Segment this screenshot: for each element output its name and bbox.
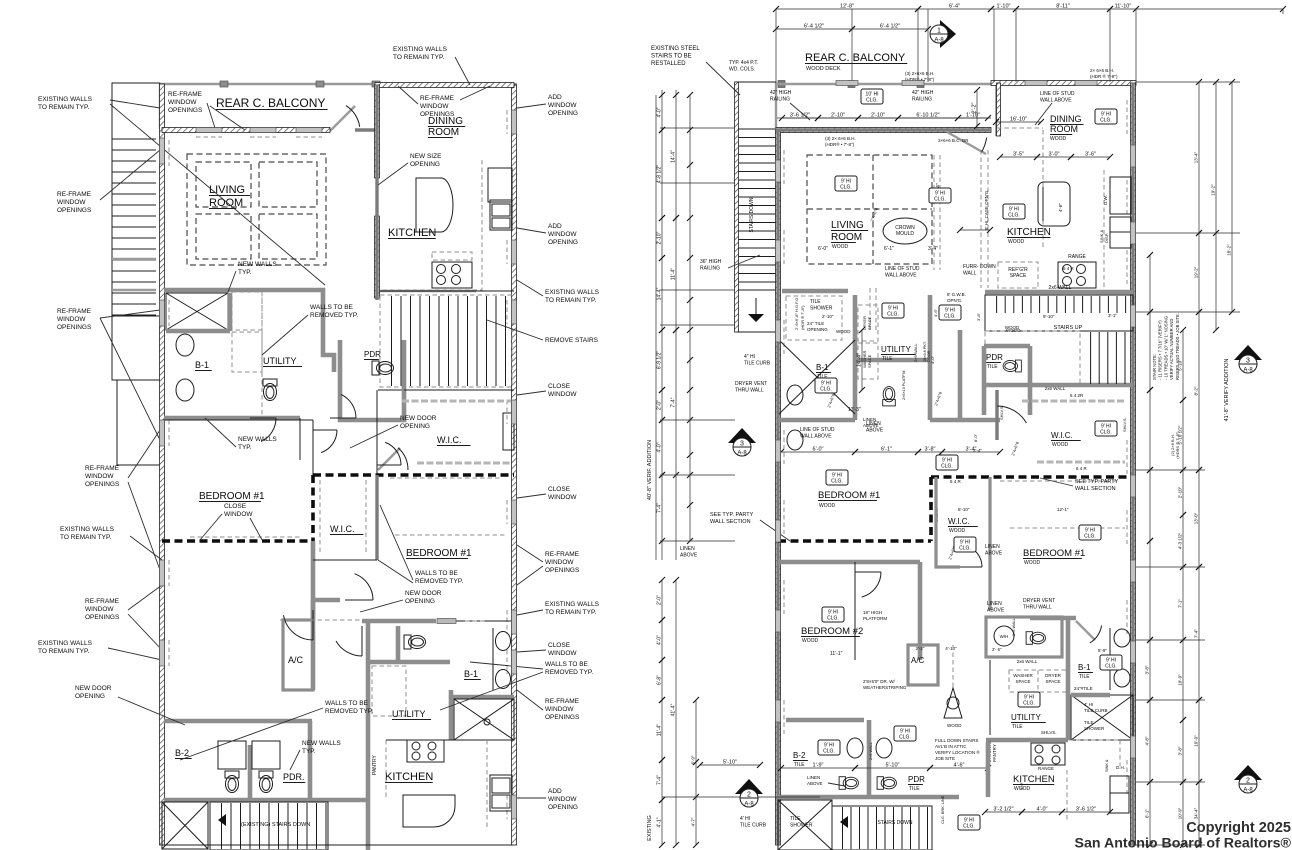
svg-text:KITCHEN: KITCHEN <box>1007 227 1051 238</box>
svg-text:3'-2 1/2": 3'-2 1/2" <box>993 807 1013 813</box>
svg-text:A-8: A-8 <box>1243 368 1253 374</box>
right plan: middle walls utility/pdr <box>782 289 848 294</box>
svg-text:WALL ABOVE: WALL ABOVE <box>1040 98 1072 104</box>
svg-text:36" HIGH: 36" HIGH <box>700 259 722 265</box>
svg-text:ADD: ADD <box>548 94 562 101</box>
svg-text:3'-0": 3'-0" <box>1019 781 1024 790</box>
svg-text:WOOD: WOOD <box>1052 442 1068 448</box>
left plan: right wall <box>512 85 515 845</box>
svg-text:A-8: A-8 <box>737 451 747 457</box>
svg-text:12'-1": 12'-1" <box>1057 507 1069 512</box>
svg-text:(EXISTING) STAIRS DOWN: (EXISTING) STAIRS DOWN <box>241 822 310 828</box>
left plan: B-2 fixtures <box>225 771 239 793</box>
svg-text:2'8×5'0" DR. W/: 2'8×5'0" DR. W/ <box>863 679 895 684</box>
left plan: bottom-left X landing <box>162 802 208 849</box>
svg-text:WEATHERSTRIPING: WEATHERSTRIPING <box>863 685 907 690</box>
svg-text:DINING: DINING <box>1050 114 1082 124</box>
svg-text:34'-4": 34'-4" <box>1194 807 1199 819</box>
svg-text:2'-10": 2'-10" <box>657 231 663 244</box>
svg-text:OPENINGS: OPENINGS <box>85 481 120 488</box>
left plan: counter edge gray <box>380 290 476 292</box>
svg-text:CLG.: CLG. <box>1100 430 1112 436</box>
svg-text:5'-10": 5'-10" <box>1178 359 1183 371</box>
right plan: utility appliances stacked <box>858 305 878 341</box>
right plan: bed1 dashed headers <box>1000 480 1120 482</box>
svg-text:CLG. BRK. LINE: CLG. BRK. LINE <box>941 795 945 824</box>
svg-text:CLOSE: CLOSE <box>548 383 571 390</box>
right plan: bottom stairs <box>832 806 932 850</box>
svg-text:NEW WALLS: NEW WALLS <box>238 436 277 443</box>
svg-text:TILE: TILE <box>790 816 801 822</box>
marker 3/A-8 right <box>1234 345 1262 360</box>
svg-text:WINDOW: WINDOW <box>57 199 86 206</box>
ceiling height boxes right plan <box>835 176 857 191</box>
svg-text:ROOM: ROOM <box>428 127 459 138</box>
svg-text:6'-4 1/2": 6'-4 1/2" <box>804 24 824 30</box>
svg-text:RE-FRAME: RE-FRAME <box>545 551 580 558</box>
svg-text:8'-0": 8'-0" <box>973 433 978 442</box>
svg-text:NEW SIZE: NEW SIZE <box>410 153 442 160</box>
window opening overlays left plan <box>160 138 165 164</box>
svg-text:6 4 R: 6 4 R <box>950 479 962 484</box>
left plan: W.I.C. area <box>404 389 514 391</box>
svg-text:3×6×6 B.C. DR: 3×6×6 B.C. DR <box>938 138 969 143</box>
svg-text:NEW WALLS: NEW WALLS <box>238 261 277 268</box>
svg-text:WOOD: WOOD <box>947 723 962 728</box>
svg-text:4'-10": 4'-10" <box>945 646 957 651</box>
svg-text:W.I.C.: W.I.C. <box>330 524 355 534</box>
svg-text:DISP.: DISP. <box>1104 233 1109 243</box>
svg-text:TILE CURB: TILE CURB <box>744 361 771 367</box>
svg-text:EXISTING WALLS: EXISTING WALLS <box>545 601 600 608</box>
svg-text:7'-4": 7'-4" <box>657 775 663 785</box>
svg-text:CLG.: CLG. <box>959 546 971 552</box>
svg-text:NEW WALLS: NEW WALLS <box>302 740 341 747</box>
right plan: lower walls <box>786 718 864 723</box>
svg-text:MOULD: MOULD <box>896 231 914 237</box>
svg-text:STAIRS DOWN: STAIRS DOWN <box>878 820 913 826</box>
svg-text:BEDROOM #1: BEDROOM #1 <box>406 548 472 559</box>
svg-text:2'-10": 2'-10" <box>1178 486 1183 498</box>
svg-text:EXISTING WALLS: EXISTING WALLS <box>393 46 448 53</box>
right plan: 2x6 wall strip <box>985 290 1133 295</box>
svg-text:LINE OF STUD: LINE OF STUD <box>1040 91 1075 97</box>
svg-text:2×6×10 PLATF'M: 2×6×10 PLATF'M <box>902 371 906 400</box>
svg-text:TO REMAIN TYP.: TO REMAIN TYP. <box>38 104 89 111</box>
right plan: dining top wall <box>991 81 1136 84</box>
svg-text:WALL SECTION: WALL SECTION <box>1075 486 1116 492</box>
svg-text:LINE OF STUD: LINE OF STUD <box>800 427 835 433</box>
svg-text:2'-2": 2'-2" <box>972 102 978 113</box>
svg-text:W.I.C.: W.I.C. <box>1051 431 1073 440</box>
svg-text:3'-6 1/2": 3'-6 1/2" <box>790 113 810 119</box>
svg-text:D.H.: D.H. <box>1116 765 1125 770</box>
svg-text:CLG.: CLG. <box>866 98 878 104</box>
svg-text:13'-4": 13'-4" <box>1194 151 1199 163</box>
svg-text:TILE: TILE <box>987 364 998 370</box>
svg-text:SHOWER: SHOWER <box>1084 726 1105 731</box>
svg-text:6'-0": 6'-0" <box>818 246 828 252</box>
left plan: bottom stairs <box>210 802 328 850</box>
left plan: stair landing bars <box>112 258 156 260</box>
svg-text:WALL ABOVE: WALL ABOVE <box>800 434 832 440</box>
svg-text:WINDOW: WINDOW <box>85 606 114 613</box>
svg-text:4'-0": 4'-0" <box>1037 807 1048 813</box>
svg-text:PDR: PDR <box>986 353 1003 362</box>
svg-text:WALLS TO BE: WALLS TO BE <box>310 304 354 311</box>
dims inside balcony right <box>782 117 818 119</box>
svg-text:RAILING: RAILING <box>700 266 720 272</box>
right plan: washer dryer dashed <box>1009 670 1068 692</box>
svg-text:SHLV.S.: SHLV.S. <box>999 405 1004 420</box>
svg-text:TYP.: TYP. <box>302 748 316 755</box>
annotation stair note right rotated <box>1152 313 1180 380</box>
svg-text:4'-0": 4'-0" <box>657 442 663 452</box>
svg-text:5'-10": 5'-10" <box>723 760 737 766</box>
left plan: kitchen island <box>416 178 453 232</box>
svg-text:- 10 TREADS • 10" W/ 1" NOSING: - 10 TREADS • 10" W/ 1" NOSING <box>1163 316 1168 380</box>
svg-text:ROOM: ROOM <box>1050 124 1078 134</box>
right plan: W/H and utility walls <box>986 617 1062 657</box>
svg-text:RESTALLED: RESTALLED <box>651 61 686 67</box>
dims dining row2 <box>1037 156 1071 158</box>
svg-text:CLG.: CLG. <box>899 735 911 741</box>
svg-text:WOOD: WOOD <box>836 329 851 334</box>
dims kitchen right row <box>996 121 1041 123</box>
left plan: utility dashed appliances <box>232 292 262 330</box>
left plan: window hatches top wall <box>196 128 222 133</box>
left plan: B-1 fixtures <box>176 334 194 356</box>
svg-text:EXISTING WALLS: EXISTING WALLS <box>38 96 93 103</box>
svg-text:42" HIGH: 42" HIGH <box>912 90 934 96</box>
svg-text:CLG.: CLG. <box>934 197 946 203</box>
left plan: party wall dashed <box>313 473 514 477</box>
left plan: shower B-1 <box>166 293 228 330</box>
svg-text:B-2: B-2 <box>793 751 806 760</box>
svg-text:BEDROOM #2: BEDROOM #2 <box>801 626 863 637</box>
svg-text:VERIFY LOCATION ®: VERIFY LOCATION ® <box>935 749 980 755</box>
svg-text:TO REMAIN TYP.: TO REMAIN TYP. <box>393 54 444 61</box>
svg-text:WALLS TO BE: WALLS TO BE <box>415 570 459 577</box>
svg-text:NEW DOOR: NEW DOOR <box>400 415 437 422</box>
right plan: left wall <box>776 130 779 845</box>
right plan: window header dashes walls <box>783 150 785 184</box>
svg-text:ADD: ADD <box>548 223 562 230</box>
left plan: PDR walls <box>340 340 404 420</box>
svg-text:OPENINGS: OPENINGS <box>57 207 92 214</box>
right dim chains of right plan <box>1149 255 1151 845</box>
svg-text:LIVING: LIVING <box>209 184 245 196</box>
svg-text:WOOD: WOOD <box>819 503 835 509</box>
svg-text:4'-6": 4'-6" <box>1058 203 1063 212</box>
svg-text:3'-8": 3'-8" <box>976 312 981 321</box>
svg-text:REAR C. BALCONY: REAR C. BALCONY <box>805 52 906 64</box>
svg-text:ABOVE: ABOVE <box>680 553 698 559</box>
svg-text:OPENINGS: OPENINGS <box>85 614 120 621</box>
svg-text:SPACE: SPACE <box>1016 679 1031 684</box>
svg-text:REMOVED TYP.: REMOVED TYP. <box>325 708 373 715</box>
svg-text:OPENING: OPENING <box>75 693 105 700</box>
svg-text:ADD: ADD <box>548 788 562 795</box>
svg-text:LINEN: LINEN <box>680 546 695 552</box>
svg-text:LINEN: LINEN <box>807 775 820 780</box>
svg-text:SEE TYP. PARTY: SEE TYP. PARTY <box>1075 479 1119 485</box>
svg-text:RANGE: RANGE <box>1068 254 1086 260</box>
svg-text:PANTRY: PANTRY <box>372 755 378 775</box>
svg-text:2'-0": 2'-0" <box>657 400 663 410</box>
svg-text:RE-FRAME: RE-FRAME <box>57 308 92 315</box>
svg-text:41'-4": 41'-4" <box>671 703 677 716</box>
right plan: outer wall hatching <box>776 128 991 133</box>
svg-text:11'-10": 11'-10" <box>1115 4 1132 10</box>
right plan: wic closet walls <box>936 477 960 567</box>
svg-text:ROOM: ROOM <box>209 197 243 209</box>
svg-text:CLG.: CLG. <box>1023 701 1035 707</box>
svg-text:EXISTING: EXISTING <box>647 815 653 841</box>
svg-text:DRYER VENT: DRYER VENT <box>1023 598 1055 604</box>
svg-text:2'- 6": 2'- 6" <box>992 647 1002 652</box>
right plan: tile shower mid <box>786 296 842 340</box>
dims living vertical <box>861 330 863 390</box>
svg-text:SHLVS.: SHLVS. <box>1041 730 1057 735</box>
svg-text:6'-9 1/2": 6'-9 1/2" <box>657 351 663 370</box>
svg-text:Copyright 2025: Copyright 2025 <box>1186 820 1291 836</box>
svg-text:(HDR ® 7'-8"): (HDR ® 7'-8") <box>800 305 805 330</box>
svg-text:2'-2": 2'-2" <box>916 646 925 651</box>
svg-text:D.W.: D.W. <box>1103 195 1108 205</box>
svg-text:9'-10": 9'-10" <box>1043 314 1055 319</box>
svg-text:(HDRS ® 7'-8"): (HDRS ® 7'-8") <box>1175 431 1180 459</box>
svg-text:7'-4": 7'-4" <box>671 397 677 407</box>
svg-text:14'-4": 14'-4" <box>857 353 863 367</box>
svg-text:A-8: A-8 <box>934 38 944 44</box>
left plan: bedroom1 top boundary wall <box>162 419 313 421</box>
left dim chains of right plan <box>661 90 663 560</box>
svg-text:2'-10": 2'-10" <box>822 314 834 319</box>
svg-text:JOB SITE: JOB SITE <box>935 756 955 761</box>
svg-text:2×6 WALL: 2×6 WALL <box>1012 618 1016 636</box>
svg-text:REMOVED TYP.: REMOVED TYP. <box>545 669 593 676</box>
svg-text:WINDOW: WINDOW <box>548 494 577 501</box>
svg-text:B-2: B-2 <box>175 748 189 758</box>
right plan: stairs mid lower <box>985 383 1133 388</box>
svg-text:REMOVE STAIRS: REMOVE STAIRS <box>545 337 599 344</box>
svg-text:2'-10": 2'-10" <box>871 113 885 119</box>
svg-text:SHLV.S.: SHLV.S. <box>1122 417 1127 432</box>
svg-text:OPN'G.: OPN'G. <box>947 298 962 303</box>
svg-text:RE-FRAME: RE-FRAME <box>168 91 203 98</box>
left plan: door arc top wall <box>330 106 355 131</box>
svg-text:EXISTING WALLS: EXISTING WALLS <box>60 526 115 533</box>
svg-text:2× 6×6 B.H.: 2× 6×6 B.H. <box>1090 68 1114 73</box>
svg-text:(HDR ® 7'-8"): (HDR ® 7'-8") <box>1090 73 1118 79</box>
svg-text:6 4 2R: 6 4 2R <box>1070 393 1084 398</box>
svg-text:2x6 WALL: 2x6 WALL <box>1017 659 1038 664</box>
svg-text:TILE: TILE <box>1079 674 1090 680</box>
svg-text:8' HI. CASE OPN'G.: 8' HI. CASE OPN'G. <box>984 190 989 230</box>
left plan: wic door <box>378 448 400 470</box>
left plan: B-1 lower room <box>492 628 494 690</box>
svg-text:41'-8" VERIFY ADDITION: 41'-8" VERIFY ADDITION <box>1224 359 1230 422</box>
marker 2/A-8 bottom left <box>735 779 763 794</box>
svg-text:2×6 WALL: 2×6 WALL <box>913 343 918 362</box>
svg-text:4'-8": 4'-8" <box>1145 736 1150 745</box>
left plan: left wall <box>160 84 163 845</box>
svg-text:14'-4": 14'-4" <box>657 287 663 300</box>
svg-text:WINDOW: WINDOW <box>57 316 86 323</box>
svg-text:12'-8": 12'-8" <box>840 4 854 10</box>
left plan: window hatches left wall <box>160 138 165 164</box>
right plan: right wall <box>1131 83 1134 845</box>
svg-text:40'-8" VERIF. ADDITION: 40'-8" VERIF. ADDITION <box>647 440 653 500</box>
svg-text:8' G.W.B.: 8' G.W.B. <box>947 292 966 297</box>
svg-text:STAIRS DOWN: STAIRS DOWN <box>749 197 755 232</box>
svg-text:PDR: PDR <box>364 350 381 359</box>
svg-text:OPENINGS: OPENINGS <box>168 107 203 114</box>
svg-text:TILE: TILE <box>1012 724 1023 730</box>
svg-text:SPACE: SPACE <box>867 316 872 330</box>
svg-text:WINDOW: WINDOW <box>545 559 574 566</box>
svg-text:WALLS TO BE: WALLS TO BE <box>325 700 369 707</box>
svg-text:THRU WALL: THRU WALL <box>1023 605 1052 611</box>
svg-text:TO REMAIN TYP.: TO REMAIN TYP. <box>545 609 596 616</box>
svg-text:3: 3 <box>740 441 744 448</box>
svg-text:RANGE: RANGE <box>1038 766 1054 771</box>
svg-text:(HDR® • 7'-8"): (HDR® • 7'-8") <box>825 141 855 147</box>
svg-text:CLG.: CLG. <box>944 314 956 320</box>
svg-text:WINDOW: WINDOW <box>420 103 449 110</box>
left plan: hall dashed line <box>280 619 360 621</box>
svg-text:WINDOW: WINDOW <box>545 706 574 713</box>
svg-text:B-1: B-1 <box>464 669 478 679</box>
svg-text:WINDOW: WINDOW <box>548 102 577 109</box>
svg-text:KITCHEN: KITCHEN <box>388 227 436 239</box>
svg-text:EXISTING WALLS: EXISTING WALLS <box>545 289 600 296</box>
right plan: balcony clg box <box>861 89 883 104</box>
svg-text:WINDOW: WINDOW <box>224 511 253 518</box>
svg-text:RE-FRAME: RE-FRAME <box>57 191 92 198</box>
svg-text:6'-8": 6'-8" <box>657 675 663 685</box>
svg-text:REMOVED TYP.: REMOVED TYP. <box>415 578 463 585</box>
svg-text:CLG.: CLG. <box>941 464 953 470</box>
svg-text:PDR: PDR <box>908 775 925 784</box>
svg-text:B-1: B-1 <box>1078 663 1091 672</box>
svg-text:ABOVE: ABOVE <box>987 608 1005 614</box>
svg-text:WOOD: WOOD <box>949 528 965 534</box>
svg-text:3'-8": 3'-8" <box>1178 746 1183 755</box>
svg-text:TILE: TILE <box>882 356 893 362</box>
svg-text:19'-2": 19'-2" <box>1211 184 1216 196</box>
right plan: attic stairs symbol <box>944 688 962 718</box>
right plan: lower kitchen <box>989 660 991 735</box>
svg-text:6'-1": 6'-1" <box>884 246 894 252</box>
svg-text:11'-1": 11'-1" <box>830 651 843 657</box>
svg-text:OPENING: OPENING <box>548 110 578 117</box>
svg-text:WALL: WALL <box>963 271 977 277</box>
svg-text:6 4 R: 6 4 R <box>1076 466 1088 471</box>
left plan: left exterior stair column <box>112 83 160 380</box>
svg-text:3: 3 <box>1246 358 1250 365</box>
svg-text:BEDROOM #1: BEDROOM #1 <box>1023 548 1085 559</box>
svg-text:7'-1": 7'-1" <box>1178 599 1183 608</box>
svg-text:WINDOW: WINDOW <box>548 231 577 238</box>
svg-text:2x6 WALL: 2x6 WALL <box>1045 386 1066 391</box>
left plan: wic center walls <box>311 541 316 620</box>
svg-text:B-1: B-1 <box>195 360 209 370</box>
svg-text:2x6 WALL: 2x6 WALL <box>1049 285 1072 291</box>
svg-text:W/H: W/H <box>1000 634 1009 639</box>
svg-text:CLG.: CLG. <box>1008 213 1020 219</box>
left plan: shower X lower right <box>454 699 514 740</box>
right plan: B-1 lower walls <box>1066 618 1071 740</box>
left plan: utility appliance dashes <box>372 666 406 716</box>
right plan: stair column hatch <box>735 82 739 332</box>
svg-text:OPENING: OPENING <box>400 423 430 430</box>
bottom dim rows right plan <box>985 811 1022 813</box>
svg-text:ABOVE: ABOVE <box>985 551 1003 557</box>
left plan: top wall of unit <box>160 128 330 131</box>
svg-text:24"#TILE: 24"#TILE <box>1074 686 1093 691</box>
svg-text:2'-10": 2'-10" <box>831 113 845 119</box>
left extension lines <box>660 127 735 129</box>
svg-text:EXISTING WALLS: EXISTING WALLS <box>38 640 93 647</box>
svg-text:TILE CURB: TILE CURB <box>1084 708 1108 713</box>
svg-text:CLG.: CLG. <box>1105 664 1117 670</box>
svg-text:OPENINGS: OPENINGS <box>545 714 580 721</box>
right plan: party wall right plan <box>931 475 1133 479</box>
svg-text:2: 2 <box>1246 778 1250 785</box>
svg-text:4'-0": 4'-0" <box>657 107 663 117</box>
svg-text:19'-2": 19'-2" <box>1194 266 1199 278</box>
right plan: tile shower lower right <box>1071 695 1133 740</box>
svg-text:13'-0": 13'-0" <box>1194 512 1199 524</box>
svg-text:WINDOW: WINDOW <box>548 796 577 803</box>
right plan: stairs up <box>985 295 1133 331</box>
svg-text:3'-6 1/2": 3'-6 1/2" <box>1076 807 1096 813</box>
svg-text:4'-0": 4'-0" <box>657 635 663 645</box>
svg-text:REAR C. BALCONY: REAR C. BALCONY <box>216 96 325 110</box>
right plan: living ceiling dashed <box>807 155 932 264</box>
svg-text:RAILING: RAILING <box>770 97 790 103</box>
svg-text:4'-6": 4'-6" <box>954 763 965 769</box>
svg-text:VERIFY ACTUAL NUMBER AND: VERIFY ACTUAL NUMBER AND <box>1169 319 1174 380</box>
svg-text:CLG.: CLG. <box>823 749 835 755</box>
svg-text:3'-8": 3'-8" <box>1145 665 1150 674</box>
svg-text:ROOM: ROOM <box>831 232 862 243</box>
svg-text:WOOD: WOOD <box>1008 239 1024 245</box>
svg-text:TILE: TILE <box>909 786 920 792</box>
svg-text:18" HIGH: 18" HIGH <box>863 610 882 615</box>
svg-text:3'-8": 3'-8" <box>925 447 936 453</box>
svg-text:TILE CURB: TILE CURB <box>740 823 767 829</box>
svg-text:4' HI: 4' HI <box>740 816 750 822</box>
svg-text:San Antonio Board of Realtors®: San Antonio Board of Realtors® <box>1075 836 1292 850</box>
svg-text:A/C: A/C <box>911 656 925 665</box>
svg-text:WINDOW: WINDOW <box>85 473 114 480</box>
svg-text:KITCHEN: KITCHEN <box>385 771 433 783</box>
right plan: utility left wall dashes <box>869 288 871 333</box>
svg-text:RE-FRAME: RE-FRAME <box>85 598 120 605</box>
svg-text:(3) 2× 6×6 B.H.: (3) 2× 6×6 B.H. <box>825 136 856 141</box>
right plan: B-1 shower X mid <box>779 340 855 414</box>
svg-text:AVL'B IN ATTIC: AVL'B IN ATTIC <box>935 744 967 749</box>
svg-text:CLG.: CLG. <box>887 312 899 318</box>
svg-text:3'-0": 3'-0" <box>1049 152 1060 158</box>
svg-text:6'-0": 6'-0" <box>813 447 824 453</box>
left plan: lower hall walls <box>164 719 312 724</box>
svg-text:WALL SECTION: WALL SECTION <box>710 519 751 525</box>
left plan: kitchen lower counters <box>385 740 387 800</box>
